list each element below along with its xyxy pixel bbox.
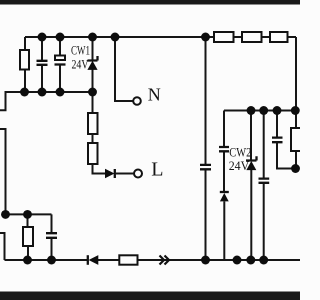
- capacitor C6: [259, 111, 270, 261]
- wire right mid rail: [224, 110, 296, 112]
- resistor R4: [23, 214, 33, 260]
- chevron wire marker: [160, 256, 170, 265]
- zener diode CW2: [246, 111, 257, 261]
- resistor R9: [291, 128, 302, 151]
- zener diode CW1: [87, 37, 97, 92]
- node bottom rail junctions: [23, 256, 268, 265]
- diode D3: [220, 192, 229, 260]
- wire bottom rail: [5, 259, 301, 261]
- svg-text:CW1: CW1: [71, 44, 90, 58]
- node mid-left rail junctions: [20, 88, 97, 97]
- resistor R3: [88, 134, 105, 174]
- resistor R6: [214, 32, 234, 42]
- capacitor C3: [46, 214, 57, 260]
- svg-text:24V: 24V: [72, 57, 89, 71]
- resistor R1: [20, 37, 29, 92]
- svg-text:L: L: [151, 159, 163, 181]
- resistor R8: [270, 32, 288, 42]
- node top rail junctions: [38, 33, 210, 42]
- capacitor C1: [37, 37, 48, 92]
- wire lower-left rail: [6, 213, 52, 215]
- bottom border bar: [0, 292, 300, 300]
- capacitor C5 branch: [219, 111, 229, 193]
- resistor R2: [88, 92, 98, 134]
- resistor R5: [119, 255, 137, 264]
- wire right edge vertical: [295, 37, 297, 169]
- node lower-left rail junctions: [1, 210, 32, 219]
- svg-text:CW2: CW2: [229, 146, 251, 160]
- svg-text:24V: 24V: [229, 159, 250, 173]
- diode D2: [88, 255, 99, 265]
- wire mid column: [205, 37, 207, 260]
- wire top rail: [25, 36, 296, 38]
- capacitor C2 (electrolytic): [55, 37, 66, 92]
- capacitor C4: [200, 165, 211, 169]
- node right rail junctions: [247, 106, 300, 115]
- node right sub junction: [291, 164, 300, 173]
- top border bar: [0, 0, 300, 5]
- wire left bottom stub: [0, 233, 5, 260]
- terminal N: [133, 97, 141, 105]
- terminal L: [134, 170, 142, 178]
- resistor R7: [242, 32, 262, 42]
- wire left stub to x=0: [0, 129, 6, 214]
- wire N branch: [115, 37, 133, 101]
- wire mid-left rail: [0, 92, 93, 110]
- svg-text:N: N: [148, 85, 161, 105]
- diode D1: [105, 169, 134, 178]
- capacitor C7 branch: [272, 111, 296, 169]
